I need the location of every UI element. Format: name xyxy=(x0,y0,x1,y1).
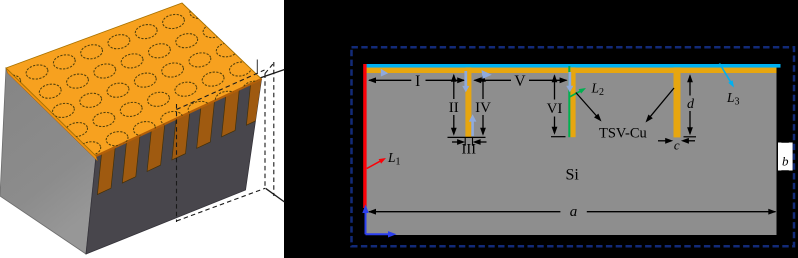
TSV pad circle xyxy=(147,42,171,59)
TSV pad circle xyxy=(93,62,117,79)
TSV pad circle xyxy=(215,41,239,58)
dimension V line xyxy=(475,79,512,81)
Si die front face xyxy=(86,79,262,254)
dashed zoom box top edge xyxy=(177,70,265,110)
layer L3 (cyan top) xyxy=(367,64,781,68)
TSV-Cu leader arrow right xyxy=(650,88,674,117)
depth reference line under TSV 2 xyxy=(551,136,566,138)
black background panel xyxy=(284,0,798,258)
dashed zoom box top-right connector xyxy=(265,63,274,74)
TSV pad circle xyxy=(161,13,185,30)
dimension c arrows xyxy=(658,140,666,142)
dashed zoom box front-right edge xyxy=(264,74,266,189)
dashed zoom box back-top tick xyxy=(256,60,258,75)
TSV pad circle xyxy=(52,53,76,70)
layer L2 (green liner on TSV 2) xyxy=(568,66,570,137)
dimension III ticks xyxy=(464,138,466,146)
TSV-Cu 2 xyxy=(570,67,575,137)
svg-text:c: c xyxy=(674,138,680,153)
leader wire top (3D box to inset) xyxy=(259,70,285,79)
TSV pad circle xyxy=(107,33,131,50)
TSV pad circle xyxy=(202,22,226,39)
TSV pad circle xyxy=(65,121,89,138)
Si substrate xyxy=(367,64,777,235)
dimension I line xyxy=(369,79,411,81)
light blue arrow 1 xyxy=(381,69,388,77)
depth reference line under TSV 3 xyxy=(684,136,697,138)
dimension VI line xyxy=(554,76,556,100)
svg-text:IV: IV xyxy=(475,100,491,116)
front TSV bar 3 xyxy=(147,124,165,171)
dashed zoom box bottom edge xyxy=(177,188,266,221)
TSV pad circle xyxy=(133,71,157,88)
TSV pad circle xyxy=(51,102,75,119)
TSV pad circle xyxy=(0,73,22,90)
TSV pad circle xyxy=(146,91,170,108)
TSV pad circle xyxy=(214,90,238,107)
label L1 leader arrow xyxy=(367,161,381,169)
TSV pad circle xyxy=(106,81,130,98)
TSV pad circle xyxy=(38,82,62,99)
TSV pad circle xyxy=(132,120,156,137)
blue dashed inset border xyxy=(352,47,795,246)
light blue arrow 2 xyxy=(482,70,492,79)
Si die left face xyxy=(0,68,96,254)
dimension III arrows xyxy=(452,141,458,143)
front TSV bar 4 xyxy=(172,112,190,159)
front TSV bar 6 xyxy=(222,89,240,137)
TSV pad circle xyxy=(160,110,184,127)
TSV pad circle xyxy=(189,3,213,20)
front TSV bar 2 xyxy=(122,136,140,184)
dimension IV line xyxy=(482,75,484,99)
front TSV bar 5 xyxy=(197,101,215,148)
svg-text:TSV-Cu: TSV-Cu xyxy=(599,126,647,142)
svg-text:d: d xyxy=(687,97,695,112)
light blue arrow 5 (down at TSV2) xyxy=(568,72,571,86)
TSV pad circle xyxy=(161,61,185,78)
label L2 leader arrow xyxy=(570,91,581,97)
light blue arrow 3 (down over TSV1) xyxy=(464,71,467,86)
dimension b label box xyxy=(778,143,793,171)
svg-text:a: a xyxy=(570,204,578,220)
TSV pad circle xyxy=(80,43,104,60)
TSV pad circle xyxy=(242,79,266,96)
light blue arrow 4 (up at TSV1 bottom) xyxy=(471,121,474,136)
dashed zoom box front-left edge xyxy=(176,104,178,222)
TSV pad circle xyxy=(134,23,158,40)
front TSV bar 7 xyxy=(246,78,264,125)
svg-text:V: V xyxy=(514,73,526,90)
TSV pad circle xyxy=(228,60,252,77)
TSV pad circle xyxy=(25,63,49,80)
dimension d line xyxy=(689,76,691,96)
TSV pad circle xyxy=(105,130,129,147)
dimension b arrowheads xyxy=(781,138,789,143)
label L3 leader arrow xyxy=(720,64,731,82)
copper front edge line xyxy=(96,79,262,156)
svg-text:Si: Si xyxy=(566,167,580,184)
depth reference line under TSV 1 xyxy=(448,136,486,138)
TSV pad circle xyxy=(79,92,103,109)
copper layer side strip (left edge) xyxy=(6,68,98,161)
TSV pad circle xyxy=(120,52,144,69)
TSV-Cu 1 xyxy=(465,67,471,137)
TSV-Cu 3 xyxy=(674,67,681,137)
TSV pad circle xyxy=(174,80,198,97)
front TSV bar 1 xyxy=(97,147,115,194)
TSV pad circle xyxy=(201,70,225,87)
TSV pad circle xyxy=(187,100,211,117)
svg-text:II: II xyxy=(449,100,459,116)
dimension a line xyxy=(369,211,560,213)
copper layer band xyxy=(367,68,777,73)
leader wire bottom (3D box to inset) xyxy=(266,188,285,202)
svg-text:III: III xyxy=(462,141,477,157)
dashed zoom box back-right edge xyxy=(273,62,275,196)
TSV pad circle xyxy=(119,101,143,118)
TSV pad circle xyxy=(92,111,116,128)
layer L1 (red left edge) xyxy=(363,64,366,208)
blue axis vertical arrow xyxy=(365,211,367,234)
TSV pad circle xyxy=(78,140,102,157)
copper layer top face xyxy=(6,3,262,156)
dimension II line xyxy=(453,75,455,99)
TSV-Cu leader arrow left xyxy=(576,93,598,118)
TSV pad circle xyxy=(175,32,199,49)
svg-text:I: I xyxy=(415,73,420,90)
TSV pad circle xyxy=(65,72,89,89)
svg-text:VI: VI xyxy=(547,101,563,117)
svg-text:b: b xyxy=(782,154,789,169)
left face gradient def xyxy=(0,0,1,1)
blue axis horizontal arrow xyxy=(366,233,390,235)
TSV pad circle xyxy=(188,51,212,68)
